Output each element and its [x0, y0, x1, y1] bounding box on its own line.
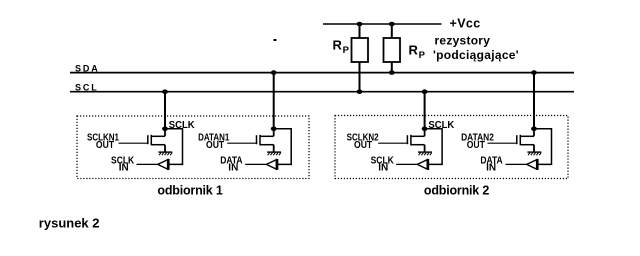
- transistor Q4 gate plate: [516, 135, 518, 144]
- wire left resistor top lead: [359, 24, 361, 38]
- wire node to buffer input (odbiornik 2 DATA): [534, 129, 552, 165]
- svg-text:R: R: [333, 37, 343, 52]
- buffer U (odbiornik 2 DATA): [527, 160, 537, 169]
- transistor Q3 source lead: [411, 144, 425, 146]
- wire bus drop to odbiornik 2 DATA: [533, 73, 535, 129]
- ground symbol (odbiornik 2 SCLK): [418, 151, 432, 153]
- wire SDA bus: [70, 72, 574, 74]
- svg-text:+Vcc: +Vcc: [450, 17, 481, 31]
- wire source to ground (odbiornik 2 SCLK): [424, 145, 426, 153]
- svg-text:IN: IN: [486, 162, 496, 173]
- wire buffer output (odbiornik 2 SCLK): [396, 163, 417, 165]
- transistor Q1 (odbiornik 1 SCLK) drain lead: [152, 135, 166, 137]
- transistor Q3 (odbiornik 2 SCLK) drain lead: [411, 135, 425, 137]
- wire gate lead (odbiornik 1 SCLK): [119, 142, 149, 144]
- svg-text:OUT: OUT: [96, 139, 114, 150]
- junction dot node odbiornik 1 DATA: [271, 127, 277, 132]
- buffer U (odbiornik 1 SCLK): [158, 160, 168, 169]
- resistor RP left (pull-up for SCL): [352, 38, 369, 62]
- wire node to buffer input (odbiornik 2 SCLK): [425, 129, 443, 165]
- wire buffer output (odbiornik 2 DATA): [506, 163, 527, 165]
- svg-text:odbiornik 2: odbiornik 2: [424, 183, 489, 197]
- wire node to buffer input (odbiornik 1 SCLK): [165, 129, 183, 165]
- stray dot artifact: [274, 39, 277, 41]
- wire node to buffer input (odbiornik 1 DATA): [274, 129, 292, 165]
- wire left resistor bottom lead to SCL: [359, 62, 361, 92]
- junction dot rail/left resistor: [357, 22, 363, 27]
- junction dot left resistor/SCL: [357, 89, 363, 94]
- transistor Q1 source lead: [152, 144, 166, 146]
- wire bus drop to odbiornik 1 DATA: [273, 73, 275, 129]
- junction dot on bus for odbiornik 2 SCLK: [422, 89, 428, 94]
- wire buffer output (odbiornik 1 SCLK): [137, 163, 158, 165]
- transistor Q3 gate plate: [406, 135, 408, 144]
- transistor Q1 channel: [150, 135, 152, 146]
- wire bus drop to odbiornik 2 SCLK: [424, 92, 426, 129]
- transistor Q2 gate plate: [256, 135, 258, 144]
- wire gate lead (odbiornik 2 DATA): [488, 142, 518, 144]
- svg-text:IN: IN: [378, 162, 388, 173]
- ground symbol (odbiornik 1 DATA): [267, 151, 281, 153]
- svg-text:R: R: [409, 42, 419, 57]
- resistor RP right (pull-up for SDA): [384, 38, 401, 62]
- svg-text:rezystory: rezystory: [435, 33, 491, 47]
- wire gate lead (odbiornik 1 DATA): [227, 142, 257, 144]
- transistor Q2 source lead: [260, 144, 274, 146]
- svg-text:IN: IN: [119, 162, 129, 173]
- transistor Q3 channel: [410, 135, 412, 146]
- junction dot node odbiornik 2 SCLK: [422, 127, 428, 132]
- transistor Q1 gate plate: [147, 135, 149, 144]
- svg-text:IN: IN: [228, 162, 238, 173]
- svg-text:rysunek 2: rysunek 2: [39, 215, 100, 230]
- svg-text:P: P: [343, 45, 350, 56]
- wire bus drop to odbiornik 1 SCLK: [164, 92, 166, 129]
- ground symbol (odbiornik 2 DATA): [527, 151, 541, 153]
- wire node to drain (odbiornik 1 DATA): [273, 129, 275, 136]
- transistor Q4 source lead: [521, 144, 535, 146]
- wire +Vcc rail: [323, 23, 442, 25]
- wire node to drain (odbiornik 2 SCLK): [424, 129, 426, 136]
- wire right resistor bottom lead to SDA: [391, 62, 393, 73]
- wire SCL bus: [70, 91, 574, 93]
- svg-text:OUT: OUT: [206, 139, 224, 150]
- transistor Q2 channel: [259, 135, 261, 146]
- dashed box odbiornik 1: [77, 116, 309, 179]
- dashed box odbiornik 2: [335, 116, 568, 179]
- wire right resistor top lead: [391, 24, 393, 38]
- junction dot node odbiornik 2 DATA: [531, 127, 537, 132]
- buffer U (odbiornik 2 SCLK): [417, 160, 427, 169]
- junction dot right resistor/SDA: [389, 70, 395, 75]
- wire source to ground (odbiornik 1 SCLK): [164, 145, 166, 153]
- junction dot rail/right resistor: [389, 22, 395, 27]
- svg-text:P: P: [419, 50, 426, 61]
- transistor Q2 (odbiornik 1 DATA) drain lead: [260, 135, 274, 137]
- junction dot node odbiornik 1 SCLK: [162, 127, 168, 132]
- junction dot on bus for odbiornik 1 SCLK: [162, 89, 168, 94]
- wire source to ground (odbiornik 2 DATA): [533, 145, 535, 153]
- wire buffer output (odbiornik 1 DATA): [245, 163, 266, 165]
- svg-text:OUT: OUT: [467, 139, 485, 150]
- junction dot on bus for odbiornik 2 DATA: [531, 70, 537, 75]
- svg-text:odbiornik 1: odbiornik 1: [157, 183, 222, 197]
- wire source to ground (odbiornik 1 DATA): [273, 145, 275, 153]
- wire gate lead (odbiornik 2 SCLK): [378, 142, 408, 144]
- wire node to drain (odbiornik 2 DATA): [533, 129, 535, 136]
- ground symbol (odbiornik 1 SCLK): [158, 151, 172, 153]
- wire node to drain (odbiornik 1 SCLK): [164, 129, 166, 136]
- svg-text:'podciągające': 'podciągające': [433, 48, 519, 62]
- transistor Q4 (odbiornik 2 DATA) drain lead: [521, 135, 535, 137]
- buffer U (odbiornik 1 DATA): [266, 160, 276, 169]
- svg-text:OUT: OUT: [354, 139, 372, 150]
- junction dot on bus for odbiornik 1 DATA: [271, 70, 277, 75]
- transistor Q4 channel: [519, 135, 521, 146]
